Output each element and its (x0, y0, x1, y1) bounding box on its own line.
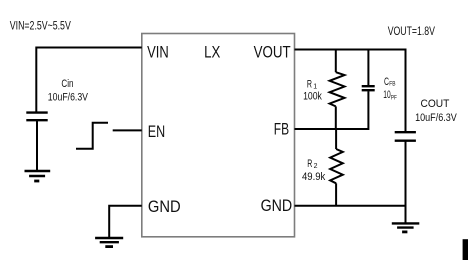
wire VIN rail (36, 47, 142, 49)
svg-text:EN: EN (148, 122, 165, 141)
capacitor C3 COUT (395, 132, 416, 206)
svg-text:COUT: COUT (421, 98, 450, 110)
svg-text:VIN: VIN (147, 42, 169, 61)
svg-text:VIN=2.5V~5.5V: VIN=2.5V~5.5V (10, 19, 71, 33)
wire FB rail (295, 128, 369, 130)
svg-text:100k: 100k (303, 91, 322, 103)
svg-text:FB: FB (274, 120, 289, 139)
ground (below Cin) (25, 171, 51, 181)
svg-text:1: 1 (313, 84, 317, 91)
svg-text:VOUT=1.8V: VOUT=1.8V (388, 24, 435, 38)
svg-text:C: C (384, 76, 389, 88)
svg-text:R: R (307, 79, 312, 91)
svg-text:49.9k: 49.9k (302, 171, 326, 183)
svg-text:FB: FB (389, 80, 395, 87)
wire COUT drop from rail (405, 49, 407, 132)
wire VOUT rail (295, 49, 406, 51)
wire VIN drop to Cin (35, 47, 37, 113)
svg-text:R: R (307, 158, 312, 170)
EN step waveform symbol (76, 123, 108, 149)
artifact black mark bottom right (463, 239, 468, 260)
svg-text:GND: GND (148, 197, 181, 216)
resistor R1 (330, 49, 345, 131)
ground (left bottom) (95, 238, 123, 247)
wire GND rail right (295, 205, 406, 207)
svg-text:LX: LX (204, 42, 220, 61)
svg-text:VOUT: VOUT (254, 42, 291, 61)
svg-text:Cin: Cin (61, 78, 73, 90)
wire COUT to ground (405, 206, 407, 223)
svg-text:10uF/6.3V: 10uF/6.3V (415, 112, 457, 124)
wire Cin to ground (36, 121, 38, 171)
svg-text:GND: GND (261, 196, 293, 215)
svg-text:2: 2 (314, 163, 318, 170)
svg-text:PF: PF (391, 94, 397, 101)
svg-text:10: 10 (383, 89, 390, 101)
op-amp U1 (regulator IC body) (142, 34, 295, 237)
capacitor C2 CFB (362, 49, 375, 131)
wire EN stub (113, 129, 142, 131)
wire GND left (109, 206, 142, 238)
ground (right bottom) (392, 223, 420, 232)
capacitor C1 Cin (26, 113, 47, 121)
resistor R2 (330, 129, 343, 206)
svg-text:10uF/6.3V: 10uF/6.3V (48, 91, 89, 103)
